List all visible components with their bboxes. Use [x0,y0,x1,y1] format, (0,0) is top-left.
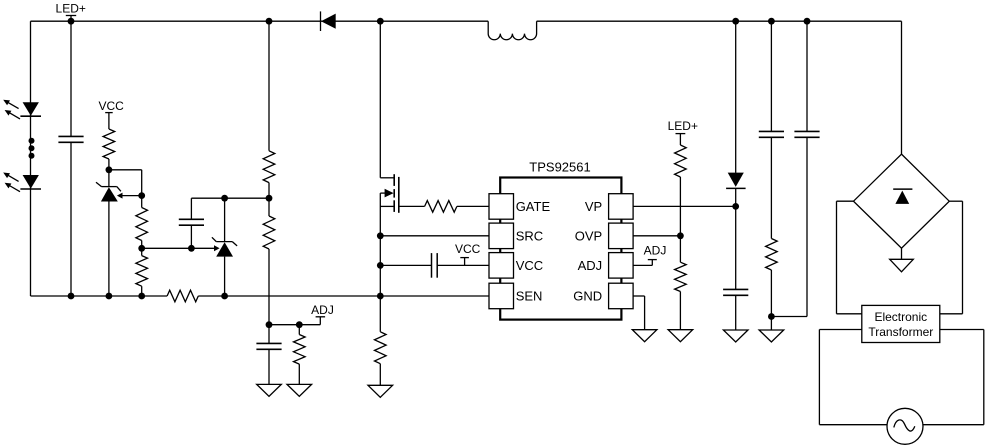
wire LED string vertical [30,21,32,296]
node C2 bottom junction [188,245,195,252]
wire R10 to node [679,177,681,236]
node U2 ref junction [138,192,145,199]
wire R7 to ground [298,364,300,384]
wire rail to bridge [901,21,903,154]
node rail C1 [68,293,75,300]
wire R2 to node [141,241,143,249]
capacitor C6 [759,130,784,132]
capacitor C7 [794,130,819,132]
wire node to U2 cathode [108,170,110,187]
node rail diode D2 [732,18,739,25]
wire node to R5 [268,198,270,216]
svg-text:LED+: LED+ [56,2,86,16]
node rail R3 [138,293,145,300]
ground (R9) [368,385,393,397]
wire bottom rail (SEN net) [31,295,168,297]
shunt regulator U3 (TL431) [216,241,232,243]
node rail C7 [804,18,811,25]
svg-text:ADJ: ADJ [311,303,334,317]
node OVP junction [677,232,684,239]
wire VP [633,205,736,207]
resistor R2 [136,208,148,241]
wire C2 bottom [190,225,192,248]
resistor R12 (bleeder) [766,239,778,271]
wire C6 to R12 [770,137,772,238]
wire sense node to R9 [379,296,381,332]
wire U2 ref arrow [123,195,142,197]
svg-text:GATE: GATE [516,199,551,214]
wire source/body down [379,193,381,296]
svg-text:VCC: VCC [516,258,543,273]
wire rail to C6 [770,21,772,131]
inductor L1 [488,21,536,40]
wire node to R7 [298,325,300,335]
wire box bottom [837,313,862,315]
node C4 junction [266,321,273,328]
svg-text:VCC: VCC [455,242,481,256]
svg-text:VP: VP [585,199,602,214]
ground (C4) [257,384,282,396]
wire R5 down across rail [268,249,270,325]
pin ADJ (U1 right) [609,253,634,279]
wire gate to R8 [399,205,425,207]
wire R3 to rail [141,286,143,296]
resistor R6 (in SEN rail) [167,290,198,302]
svg-text:LED+: LED+ [668,119,698,133]
svg-text:ADJ: ADJ [578,258,603,273]
resistor R10 [675,145,687,177]
wire C1 vertical [70,21,72,136]
pin VP (U1 right) [609,194,634,220]
resistor R7 [294,335,306,365]
wire GND to ground [633,295,645,297]
node R2/R3 junction [138,245,145,252]
pin SRC (U1 left) [489,223,514,249]
diode D2 (pointing down) [728,173,744,187]
wire R8 to GATE pin [457,205,489,207]
AC source V1 [887,408,923,444]
wire R12 to node [770,270,772,317]
wire C3 to VCC pin [437,264,489,266]
wire R4 to node [268,183,270,199]
wire node to R2 [141,196,143,208]
wire C4 node to ADJ tap [269,324,320,326]
wire R2/R3 node to U3 ref [142,247,214,249]
wire bridge right to box [949,200,962,202]
ground (R11) [668,330,693,342]
wire U3 cathode down [224,198,226,241]
node SRC junction [377,232,384,239]
resistor R3 [136,256,148,287]
pin VCC (U1 left) [489,253,514,279]
pin OVP (U1 right) [609,223,634,249]
wire R11 to ground [679,292,681,330]
svg-text:OVP: OVP [575,229,602,244]
LED D3 (top) [23,102,39,116]
ground (R7) [287,384,312,396]
bridge rectifier BR1 (diamond) [854,154,950,248]
resistor R8 (gate) [425,201,457,213]
node LED+ junction [68,18,75,25]
wire C4 to ground [268,349,270,384]
wire R9 to ground [379,364,381,386]
pin SEN (U1 left) [489,283,514,309]
node R7 junction [296,321,303,328]
resistor R4 [263,151,275,183]
ellipsis dots between LEDs [29,138,35,144]
resistor R5 [263,216,275,249]
ground (bridge) [890,259,914,272]
wire C7 down [806,137,808,316]
wire bridge to ground [901,248,903,259]
wire U2 anode down [108,202,110,297]
node rail C6 [768,18,775,25]
wire top rail [31,20,489,22]
wire node to ground [770,317,772,331]
pin GND (U1 right) [609,283,634,309]
ground (C6) [759,330,784,342]
wire OVP [633,235,680,237]
wire rail to R4 [268,21,270,151]
wire SRC [380,235,489,237]
node x269 junction [266,195,273,202]
ground (C5) [723,330,748,342]
wire drain from rail [379,21,381,178]
node C6/C7 junction [768,313,775,320]
resistor R9 (sense) [375,332,387,364]
wire rail to C7 [806,21,808,131]
capacitor C2 [179,218,204,220]
svg-text:VCC: VCC [99,99,125,113]
node rail sense [377,293,384,300]
wire bridge left to box [837,200,854,202]
capacitor C3 (VCC) [431,253,433,278]
node VCC junction [377,262,384,269]
op-amp U1 TPS92561 body [500,178,621,320]
wire ADJ pin to tap [633,264,652,266]
svg-text:Electronic: Electronic [874,310,927,324]
wire rail to D2 [735,21,737,173]
node rail U2 anode [106,293,113,300]
wire to C3 [380,264,431,266]
wire U3 anode down [224,257,226,296]
wire lower loop [819,329,861,331]
capacitor C1 [58,135,83,137]
capacitor C4 [256,342,281,344]
transistor Q1 (N-MOSFET) [393,174,395,186]
svg-text:GND: GND [573,289,602,304]
wire U2 cathode to R2 top [109,169,142,171]
node rail U3 anode [221,293,228,300]
diode inside BR1 [893,188,912,190]
ground (GND pin) [632,330,657,342]
svg-text:TPS92561: TPS92561 [529,159,590,174]
diode D1 (freewheeling, pointing left) [320,11,322,31]
wire node to R3 [141,248,143,255]
pin GATE (U1 left) [489,194,514,220]
svg-text:Transformer: Transformer [868,325,933,339]
node rail drain [377,18,384,25]
electronic transformer box [862,305,940,342]
node R1/U2 junction [106,166,113,173]
wire C2 top [190,198,192,219]
resistor R1 (VCC) [103,129,115,159]
wire SEN [380,295,489,297]
wire node to R11 [679,236,681,262]
wire R1 to node [108,159,110,170]
wire node to C4 [268,325,270,344]
wire C5 to ground [735,295,737,330]
svg-text:SEN: SEN [516,289,543,304]
wire U3 cathode net [191,197,269,199]
resistor R11 [675,262,687,291]
node VP/D2 junction [732,203,739,210]
wire D2 to C5 [735,188,737,289]
svg-text:ADJ: ADJ [644,243,667,257]
LED D4 (bottom) [23,175,39,189]
node U3 cathode junction [221,195,228,202]
svg-text:SRC: SRC [516,229,543,244]
node rail x269 [266,18,273,25]
shunt regulator U2 (TL431) [102,186,117,188]
capacitor C5 [723,288,748,290]
